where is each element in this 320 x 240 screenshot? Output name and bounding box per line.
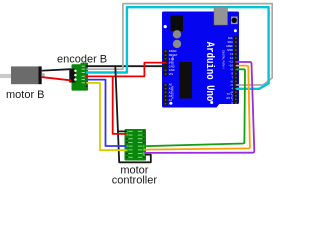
left header pin holes [165,50,167,104]
motor controller board [125,129,147,161]
svg-text:TX 1: TX 1 [227,92,233,96]
wire cyan loop encoder to Arduino pin 2 [87,7,269,89]
svg-text:VIN: VIN [169,72,173,76]
left analog pin labels [169,83,173,106]
capacitor C1 [173,30,181,38]
right header pin holes [235,37,237,104]
svg-text:encoder B: encoder B [57,53,107,65]
wire black GND encoder to Arduino [87,65,166,67]
controller left pins [126,131,128,159]
svg-text:controller: controller [112,175,158,185]
svg-text:motor B: motor B [6,89,45,101]
svg-text:Arduino Uno: Arduino Uno [203,42,215,102]
mounting hole [210,101,213,104]
left power header [163,49,168,76]
svg-text:SCL: SCL [228,36,234,40]
left analog header [163,83,168,106]
mounting hole [164,25,167,28]
encoder left connector [69,69,75,83]
reset button [231,17,238,25]
wire red 5V encoder to Arduino [87,63,166,77]
right digital pin labels 1 [226,36,233,75]
motor terminal nub [42,73,45,77]
ATmega328 IC [180,62,193,99]
svg-text:RX 0: RX 0 [227,96,233,100]
left power pin labels [169,49,178,76]
svg-text:POWER: POWER [170,56,173,65]
motor body [11,66,39,84]
controller right pins [143,131,145,159]
svg-text:ANALOG IN: ANALOG IN [170,86,173,99]
wire purple Arduino pin 11 to controller [145,62,255,153]
svg-text:GND: GND [227,48,233,52]
svg-text:SDA: SDA [228,40,234,44]
encoder pcb [72,64,89,90]
Arduino Uno U1 [162,12,239,108]
svg-text:AREF: AREF [226,44,233,48]
svg-text:(DIGITAL PWM~): (DIGITAL PWM~) [222,50,225,69]
controller left pin labels [128,131,132,158]
wire blue encoder to controller [87,80,126,146]
encoder B board [69,63,88,91]
encoder right pins [86,65,88,87]
motor end cap [39,66,42,84]
right digital pin labels 2 [230,76,234,105]
mounting hole [234,29,237,32]
right digital header 1 [234,36,239,75]
svg-text:GND: GND [169,68,175,72]
encoder connector pin holes [74,69,77,72]
motor shaft [0,74,11,78]
svg-text:~11: ~11 [229,60,234,64]
wire orange Arduino pin 10 to controller [145,66,250,150]
wire gray loop encoder to Arduino pin 4 [87,4,272,85]
wire black stub to controller pin 1 [118,130,126,132]
encoder pin labels [82,66,85,84]
wire green Arduino pin 9 to controller [145,69,245,146]
power jack [171,16,184,32]
wire yellow encoder to controller [87,83,126,150]
right digital header 2 [234,76,239,104]
usb connector [214,7,228,25]
wire black motor to encoder [43,69,71,70]
motor B [0,66,45,84]
wire red motor to encoder [43,77,71,80]
svg-text:~10: ~10 [228,64,233,68]
controller pcb [125,129,147,161]
wire red branch to controller pin 2 [113,76,126,133]
mounting hole [170,102,173,105]
encoder pcb tab [81,63,89,66]
controller right pin labels [138,131,142,158]
controller connected pin highlights [126,131,145,156]
wire black GND branch to motor controller with wrap-around [115,66,151,162]
svg-text:IOREF: IOREF [169,49,177,53]
arduino pcb [162,12,239,108]
capacitor C2 [173,40,181,48]
